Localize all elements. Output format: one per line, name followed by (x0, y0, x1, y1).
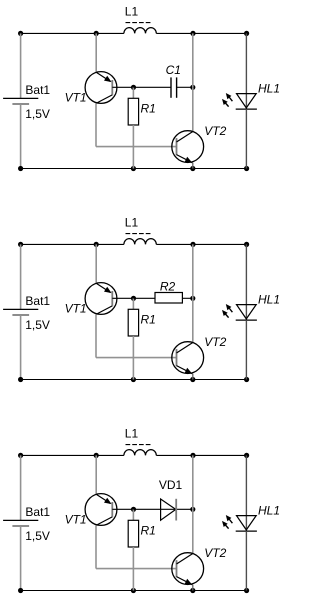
wire: VT1 emitter from top bus (circuit 2) (95, 244, 97, 283)
node: base junction (circuit 3) (131, 507, 136, 512)
resistor R1 (circuit 3) (128, 520, 138, 547)
wire: battery negative lead (circuit 3) (20, 526, 22, 591)
wire: top bus left segment (circuit 1) (21, 32, 124, 34)
LED HL1 emission arrows (circuit 2) (222, 304, 232, 318)
wire: VT1 collector to VT2 base (circuit 2) (96, 357, 177, 359)
wire: bottom bus (circuit 2) (21, 379, 247, 381)
wire: LED cathode to bottom bus (circuit 2) (245, 320, 247, 379)
node: VT2 collector junction (circuit 3) (190, 507, 195, 512)
node: bottom junction R1 branch (circuit 2) (131, 377, 136, 382)
node: top-left corner junction (circuit 3) (18, 453, 23, 458)
wire: VT1 base lead (circuit 3) (112, 508, 133, 510)
wire: R1 top lead (circuit 2) (132, 298, 134, 309)
capacitor C1 (circuit 1) (171, 77, 177, 97)
svg-text:VT1: VT1 (65, 302, 87, 316)
wire: top bus right segment (circuit 3) (156, 454, 246, 456)
node: top-right corner junction (circuit 1) (244, 31, 249, 36)
wire: VT2 collector junction down (circuit 3) (192, 509, 194, 553)
inductor L1 (circuit 1) (124, 23, 156, 34)
svg-text:Bat1: Bat1 (25, 83, 50, 97)
svg-text:1,5V: 1,5V (25, 107, 50, 121)
wire: LED anode from top bus (circuit 1) (245, 33, 247, 93)
diode VD1 (circuit 3) (161, 499, 177, 521)
battery Bat1 (circuit 2) (3, 309, 38, 315)
wire: VT1 base lead (circuit 1) (112, 86, 133, 88)
svg-text:Bat1: Bat1 (25, 294, 50, 308)
wire: LED cathode to bottom bus (circuit 1) (245, 109, 247, 168)
node: bottom junction VT2 emitter (circuit 1) (190, 166, 195, 171)
wire: LED anode from top bus (circuit 3) (245, 455, 247, 515)
node: bottom junction VT2 emitter (circuit 3) (190, 588, 195, 593)
node: top junction VT1 branch (circuit 2) (94, 242, 99, 247)
node: bottom junction R1 branch (circuit 3) (131, 588, 136, 593)
svg-text:HL1: HL1 (258, 504, 280, 518)
node: top junction VT1 branch (circuit 1) (94, 31, 99, 36)
node: VT2 collector junction (circuit 1) (190, 85, 195, 90)
wire: VT2 collector junction down (circuit 1) (192, 87, 194, 131)
wire: LED anode inside (circuit 2) (245, 305, 247, 320)
node: bottom-left corner junction (circuit 3) (18, 588, 23, 593)
node: top junction VT1 branch (circuit 3) (94, 453, 99, 458)
svg-text:VD1: VD1 (159, 478, 183, 492)
svg-text:1,5V: 1,5V (25, 529, 50, 543)
LED HL1 (circuit 1) (236, 94, 257, 110)
wire: LED anode inside (circuit 3) (245, 516, 247, 531)
wire: battery positive lead (circuit 3) (20, 455, 22, 520)
wire: VT1 collector to VT2 base (circuit 3) (96, 568, 177, 570)
node: bottom-left corner junction (circuit 1) (18, 166, 23, 171)
inductor L1 (circuit 2) (124, 234, 156, 245)
node: bottom-right corner junction (circuit 2) (244, 377, 249, 382)
inductor L1 (circuit 3) (124, 445, 156, 456)
wire: VT1 emitter from top bus (circuit 3) (95, 455, 97, 494)
svg-text:VT2: VT2 (204, 335, 226, 349)
wire: R2 to VT2 collector branch (circuit 2) (182, 297, 192, 299)
node: VT2 collector junction (circuit 2) (190, 296, 195, 301)
svg-text:L1: L1 (125, 427, 139, 441)
resistor R2 (circuit 2) (155, 293, 182, 304)
battery Bat1 (circuit 3) (3, 520, 38, 526)
wire: VT1 collector down (circuit 3) (95, 525, 97, 568)
wire: base junction to VD1 (circuit 3) (134, 508, 193, 510)
svg-text:HL1: HL1 (258, 82, 280, 96)
svg-text:VT1: VT1 (65, 91, 87, 105)
wire: VT1 emitter from top bus (circuit 1) (95, 33, 97, 72)
wire: bottom bus (circuit 1) (21, 168, 247, 170)
svg-text:L1: L1 (125, 5, 139, 19)
wire: battery positive lead (circuit 1) (20, 33, 22, 98)
transistor VT1 (circuit 3) (85, 494, 117, 526)
node: top-right corner junction (circuit 3) (244, 453, 249, 458)
svg-text:R2: R2 (160, 279, 176, 293)
wire: battery negative lead (circuit 1) (20, 104, 22, 169)
wire: VT1 collector down (circuit 1) (95, 103, 97, 146)
battery Bat1 (circuit 1) (3, 98, 38, 104)
node: top-right corner junction (circuit 2) (244, 242, 249, 247)
wire: battery positive lead (circuit 2) (20, 244, 22, 309)
wire: top bus to VT2 collector junction (circuit 1) (192, 33, 194, 87)
wire: R1 bottom lead (circuit 2) (132, 336, 134, 380)
transistor VT1 (circuit 2) (85, 283, 117, 315)
wire: top bus left segment (circuit 2) (21, 243, 124, 245)
node: bottom-right corner junction (circuit 3) (244, 588, 249, 593)
resistor R1 (circuit 1) (128, 98, 138, 125)
wire: top bus left segment (circuit 3) (21, 454, 124, 456)
wire: LED anode from top bus (circuit 2) (245, 244, 247, 304)
svg-text:L1: L1 (125, 216, 139, 230)
wire: top bus right segment (circuit 2) (156, 243, 246, 245)
LED HL1 emission arrows (circuit 3) (222, 515, 232, 529)
transistor VT1 (circuit 1) (85, 72, 117, 104)
wire: top bus to VT2 collector junction (circuit 3) (192, 455, 194, 509)
wire: R1 top lead (circuit 1) (132, 87, 134, 98)
node: base junction (circuit 1) (131, 85, 136, 90)
wire: VT1 collector down (circuit 2) (95, 314, 97, 357)
svg-text:VT2: VT2 (204, 124, 226, 138)
svg-text:R1: R1 (141, 313, 156, 327)
node: bottom junction VT2 emitter (circuit 2) (190, 377, 195, 382)
svg-text:VT1: VT1 (65, 513, 87, 527)
wire: LED anode inside (circuit 1) (245, 94, 247, 109)
svg-text:1,5V: 1,5V (25, 318, 50, 332)
LED HL1 emission arrows (circuit 1) (222, 93, 232, 107)
node: top junction VT2 branch (circuit 2) (190, 242, 195, 247)
wire: base junction to C1 (circuit 1) (134, 86, 171, 88)
wire: VT1 base lead (circuit 2) (112, 297, 133, 299)
transistor VT2 (circuit 2) (172, 342, 204, 380)
svg-text:C1: C1 (166, 63, 181, 77)
svg-text:HL1: HL1 (258, 293, 280, 307)
wire: base junction to R2 (circuit 2) (134, 297, 156, 299)
node: top-left corner junction (circuit 2) (18, 242, 23, 247)
svg-text:VT2: VT2 (204, 546, 226, 560)
node: top-left corner junction (circuit 1) (18, 31, 23, 36)
wire: top bus to VT2 collector junction (circuit 2) (192, 244, 194, 298)
svg-text:R1: R1 (141, 524, 156, 538)
node: bottom-left corner junction (circuit 2) (18, 377, 23, 382)
transistor VT2 (circuit 1) (172, 131, 204, 169)
wire: top bus right segment (circuit 1) (156, 32, 246, 34)
wire: C1 to VT2 collector branch (circuit 1) (177, 86, 193, 88)
transistor VT2 (circuit 3) (172, 553, 204, 591)
node: base junction (circuit 2) (131, 296, 136, 301)
node: bottom-right corner junction (circuit 1) (244, 166, 249, 171)
wire: LED cathode to bottom bus (circuit 3) (245, 531, 247, 590)
LED HL1 (circuit 2) (236, 305, 257, 321)
wire: VT2 collector junction down (circuit 2) (192, 298, 194, 342)
wire: R1 bottom lead (circuit 1) (132, 125, 134, 169)
resistor R1 (circuit 2) (128, 309, 138, 336)
svg-text:Bat1: Bat1 (25, 505, 50, 519)
wire: R1 top lead (circuit 3) (132, 509, 134, 520)
LED HL1 (circuit 3) (236, 516, 257, 532)
node: top junction VT2 branch (circuit 1) (190, 31, 195, 36)
wire: bottom bus (circuit 3) (21, 590, 247, 592)
node: top junction VT2 branch (circuit 3) (190, 453, 195, 458)
node: bottom junction R1 branch (circuit 1) (131, 166, 136, 171)
wire: VT1 collector to VT2 base (circuit 1) (96, 146, 177, 148)
wire: R1 bottom lead (circuit 3) (132, 547, 134, 591)
wire: battery negative lead (circuit 2) (20, 315, 22, 380)
svg-text:R1: R1 (141, 102, 156, 116)
